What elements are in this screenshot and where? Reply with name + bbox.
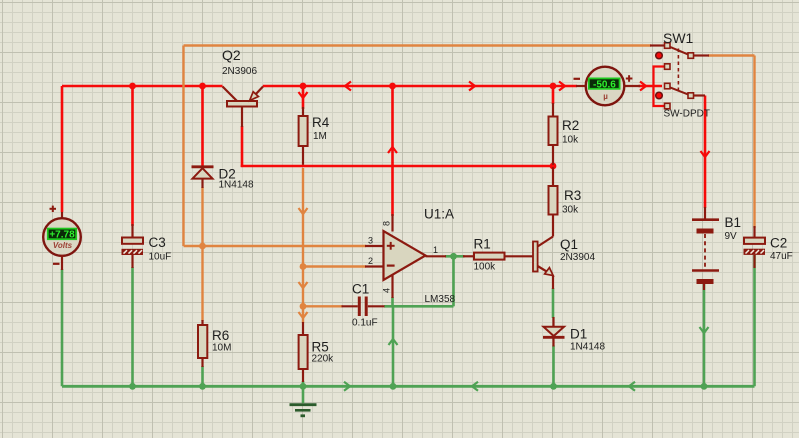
label SW1 xyxy=(663,30,694,46)
value R1 100k xyxy=(474,262,497,273)
wire orange SW1 to C2 horizontal y=55.5 xyxy=(708,54,755,56)
ammeter LCD display xyxy=(589,78,620,90)
label R3 xyxy=(564,188,581,203)
value C3 10uF xyxy=(149,252,172,263)
battery B1 xyxy=(692,207,719,290)
svg-text:D1: D1 xyxy=(570,327,587,342)
value LM358 xyxy=(425,294,456,305)
value C1 0.1uF xyxy=(352,318,378,329)
resistor R4 xyxy=(299,107,308,165)
wire green pin4 segment xyxy=(391,297,394,306)
value Q1 2N3904 xyxy=(560,252,595,263)
value D2 1N4148 xyxy=(219,180,254,191)
junction node rail-pin8 xyxy=(389,83,396,90)
current arrow down on battery wire xyxy=(701,151,710,157)
value SW-DPDT xyxy=(664,109,710,120)
current arrow right on bus x348 xyxy=(344,382,350,391)
wire R2 top vertical xyxy=(552,86,555,104)
junction node bus-D1 xyxy=(550,383,557,390)
current arrow left on rail xyxy=(345,82,351,91)
switch SW1 pole1 common contact xyxy=(665,43,671,49)
value R4 1M xyxy=(313,131,327,142)
value B1 9V xyxy=(725,231,738,242)
wire green battery bottom xyxy=(703,284,706,386)
label R5 xyxy=(312,340,329,355)
pin number 1 xyxy=(433,245,438,255)
switch SW1 state dot 1 xyxy=(656,52,663,59)
svg-text:10k: 10k xyxy=(562,135,579,146)
resistor R6 xyxy=(198,320,207,367)
current arrow down on R4 top lead xyxy=(299,92,308,98)
ammeter body xyxy=(586,67,625,106)
svg-text:R5: R5 xyxy=(312,340,329,355)
svg-text:2: 2 xyxy=(368,256,373,266)
label Q1 xyxy=(560,237,578,252)
switch SW1 throw1 stub xyxy=(694,54,710,56)
svg-text:R3: R3 xyxy=(564,188,581,203)
svg-text:30k: 30k xyxy=(562,205,579,216)
pin number 3 xyxy=(368,236,373,246)
op-amp pin4 lead xyxy=(391,275,393,299)
current arrow left on bus x631 xyxy=(629,382,635,391)
current arrow down on battery green xyxy=(700,327,709,333)
value R3 30k xyxy=(562,205,579,216)
wire ground stub below bus xyxy=(302,386,305,403)
switch SW1 mechanical link dashed xyxy=(677,49,679,94)
wire orange D2-R6 vertical xyxy=(201,187,203,321)
svg-text:10uF: 10uF xyxy=(149,252,172,263)
wire voltmeter top vertical xyxy=(61,86,64,220)
resistor R3 xyxy=(549,167,558,228)
svg-text:1N4148: 1N4148 xyxy=(219,180,254,191)
value Q2 2N3906 xyxy=(222,66,257,77)
voltmeter maroon stub bottom xyxy=(61,255,63,270)
pin number 4 xyxy=(382,288,392,293)
junction node bus-R5 xyxy=(300,383,307,390)
capacitor C3 leads xyxy=(131,224,133,268)
junction node bus-C3 xyxy=(129,383,136,390)
svg-text:R1: R1 xyxy=(474,237,491,252)
svg-text:LM358: LM358 xyxy=(425,294,456,305)
wire orange C1 horizontal y=306.3 xyxy=(303,305,343,307)
value R2 10k xyxy=(562,135,579,146)
value R6 10M xyxy=(212,343,231,354)
svg-text:+7.78: +7.78 xyxy=(49,230,75,241)
svg-text:µ: µ xyxy=(603,92,608,101)
wire battery top vertical xyxy=(704,96,707,209)
wire D2 top vertical xyxy=(201,86,204,166)
current arrow up on pin8 wire xyxy=(388,147,397,153)
capacitor C3 bottom plate (hatched) xyxy=(122,249,144,255)
junction node bus-battery xyxy=(701,383,708,390)
value D1 1N4148 xyxy=(570,342,605,353)
svg-text:R4: R4 xyxy=(312,115,330,130)
label C1 xyxy=(352,282,369,297)
svg-text:0.1uF: 0.1uF xyxy=(352,318,378,329)
voltmeter minus mark xyxy=(53,263,60,265)
label R2 xyxy=(562,118,579,133)
wire voltmeter bottom green xyxy=(61,269,64,386)
svg-text:SW1: SW1 xyxy=(663,30,694,46)
resistor R2 xyxy=(549,103,558,165)
wire +rail y=86 left segment xyxy=(62,85,577,88)
junction node rail-R4 xyxy=(300,83,307,90)
wire green horizontal y=306.3 xyxy=(384,305,454,308)
svg-text:10M: 10M xyxy=(212,343,231,354)
wire green Q1 emitter segment xyxy=(552,288,555,318)
wire green output horizontal xyxy=(445,255,465,258)
value R5 220k xyxy=(312,354,335,365)
wire Q2 base vertical red part xyxy=(241,126,244,167)
svg-text:1N4148: 1N4148 xyxy=(570,342,605,353)
current arrow down netA y286 xyxy=(299,282,308,288)
switch SW1 arm pole2 xyxy=(670,87,688,94)
switch SW1 state dot 2 xyxy=(656,92,663,99)
label C2 xyxy=(770,236,787,251)
svg-text:100k: 100k xyxy=(474,262,497,273)
wire R4 top vertical xyxy=(302,86,305,109)
wire orange net-B top horizontal y=45.5 xyxy=(184,44,652,46)
junction node rail-D2 xyxy=(199,83,206,90)
wire orange C2 vertical x=754.5 xyxy=(753,56,755,229)
ammeter uA icon xyxy=(603,92,608,101)
transistor Q1 (2N3904 NPN) xyxy=(533,228,553,289)
ammeter plus mark xyxy=(626,75,633,82)
voltmeter Volts label xyxy=(53,241,73,250)
capacitor C3 top plate xyxy=(122,238,143,244)
label U1:A xyxy=(424,207,454,222)
junction node netA-C1 xyxy=(300,303,307,310)
junction node rail-R2 xyxy=(550,83,557,90)
label C3 xyxy=(149,235,166,250)
op-amp pin8 lead xyxy=(391,214,393,232)
wire orange pin3 horizontal y=246 xyxy=(184,245,367,247)
op-amp pin2 lead xyxy=(365,265,384,267)
current arrow up on gnd vertical x393 xyxy=(389,339,398,345)
wire feedback y=166 horizontal xyxy=(241,165,553,168)
label R4 xyxy=(312,115,330,130)
junction node netA-pin2 xyxy=(300,263,307,270)
wire C3 bottom green xyxy=(131,267,134,386)
current arrow down netA y316 xyxy=(299,312,308,318)
voltmeter LCD display xyxy=(48,229,76,241)
wire R6 bottom green xyxy=(201,366,204,386)
current arrow left on bus x474 xyxy=(472,382,478,391)
svg-text:1M: 1M xyxy=(313,131,327,142)
transistor Q2 (2N3906 PNP) xyxy=(223,87,264,128)
svg-text:9V: 9V xyxy=(725,231,738,242)
voltmeter body xyxy=(43,218,81,256)
junction node rail-C3 xyxy=(129,83,136,90)
label D2 xyxy=(219,167,236,182)
wire green output vertical x=453.5 xyxy=(452,256,455,306)
resistor R5 xyxy=(299,322,308,382)
switch SW1 arm pole1 xyxy=(670,47,688,55)
svg-text:8: 8 xyxy=(382,221,392,226)
voltmeter plus mark xyxy=(50,206,57,212)
svg-text:-50.6: -50.6 xyxy=(593,79,616,90)
switch SW1 pole2 NC contact xyxy=(665,103,671,109)
wire green opamp gnd vertical x=393 xyxy=(392,306,395,386)
svg-text:C1: C1 xyxy=(352,282,369,297)
op-amp U1:A body xyxy=(384,231,426,280)
svg-text:4: 4 xyxy=(382,288,392,293)
svg-text:R6: R6 xyxy=(212,328,229,343)
junction node D2-pin3 xyxy=(199,243,206,250)
switch SW1 throw1 contact xyxy=(688,53,694,59)
label R6 xyxy=(212,328,229,343)
label D1 xyxy=(570,327,587,342)
resistor R1 xyxy=(463,253,533,260)
switch SW1 pole1 NC contact xyxy=(665,64,671,70)
capacitor C2 top plate xyxy=(744,238,765,244)
svg-text:Q1: Q1 xyxy=(560,237,578,252)
wire orange net-B vertical x=183.5 xyxy=(182,46,184,247)
capacitor C2 leads xyxy=(753,226,755,268)
diode D1 xyxy=(543,317,565,347)
junction node bus-R6 xyxy=(199,383,206,390)
svg-text:B1: B1 xyxy=(725,215,742,230)
ground symbol xyxy=(290,405,317,416)
diode D2 xyxy=(192,167,214,188)
switch SW1 common stub xyxy=(650,44,665,46)
junction node opamp output xyxy=(450,253,457,260)
junction node feedback-R2R3 xyxy=(550,163,557,170)
wire green C2 bottom xyxy=(753,255,756,386)
svg-text:Volts: Volts xyxy=(53,241,73,250)
junction node bus-opamp xyxy=(390,383,397,390)
op-amp pin3 lead xyxy=(365,245,384,247)
wire C3 top vertical xyxy=(131,86,134,226)
value C2 47uF xyxy=(770,251,793,262)
svg-text:C2: C2 xyxy=(770,236,787,251)
wire op-amp pin8 vertical xyxy=(391,86,394,216)
wire green D1 bottom xyxy=(552,346,555,387)
op-amp output lead xyxy=(426,255,447,257)
current arrow right on rail xyxy=(469,82,475,91)
label Q2 xyxy=(222,47,241,63)
current arrow right before ammeter xyxy=(559,82,565,91)
capacitor C1 xyxy=(342,297,385,317)
svg-text:3: 3 xyxy=(368,236,373,246)
svg-text:U1:A: U1:A xyxy=(424,207,454,222)
label B1 xyxy=(725,215,742,230)
svg-text:2N3906: 2N3906 xyxy=(222,66,257,77)
wire orange pin2 horizontal y=266.5 xyxy=(303,265,366,267)
wire ground bus y=386.3 xyxy=(62,385,755,388)
label R1 xyxy=(474,237,491,252)
switch SW1 pole2 common contact xyxy=(665,83,671,89)
wire +rail y=86 right segment after ammeter xyxy=(639,85,663,88)
svg-text:2N3904: 2N3904 xyxy=(560,252,595,263)
switch SW1 throw2 stub xyxy=(694,94,706,96)
svg-text:R2: R2 xyxy=(562,118,579,133)
capacitor C2 bottom plate (hatched) xyxy=(744,249,766,255)
current arrow right after ammeter xyxy=(640,82,646,91)
svg-text:Q2: Q2 xyxy=(222,47,241,63)
svg-text:47uF: 47uF xyxy=(770,251,793,262)
svg-text:220k: 220k xyxy=(312,354,335,365)
pin number 8 xyxy=(382,221,392,226)
svg-text:SW-DPDT: SW-DPDT xyxy=(664,109,710,120)
svg-text:C3: C3 xyxy=(149,235,166,250)
wire SW1 NC bracket xyxy=(654,67,667,107)
pin number 2 xyxy=(368,256,373,266)
wire orange net-A vertical x=303 xyxy=(302,168,304,323)
wire ammeter stubs maroon xyxy=(576,85,640,87)
switch SW1 throw2 contact xyxy=(688,93,694,99)
ammeter minus mark xyxy=(574,78,581,80)
wire R5 bottom green xyxy=(302,381,305,386)
current arrow down netA y212 xyxy=(299,208,308,214)
svg-text:1: 1 xyxy=(433,245,438,255)
